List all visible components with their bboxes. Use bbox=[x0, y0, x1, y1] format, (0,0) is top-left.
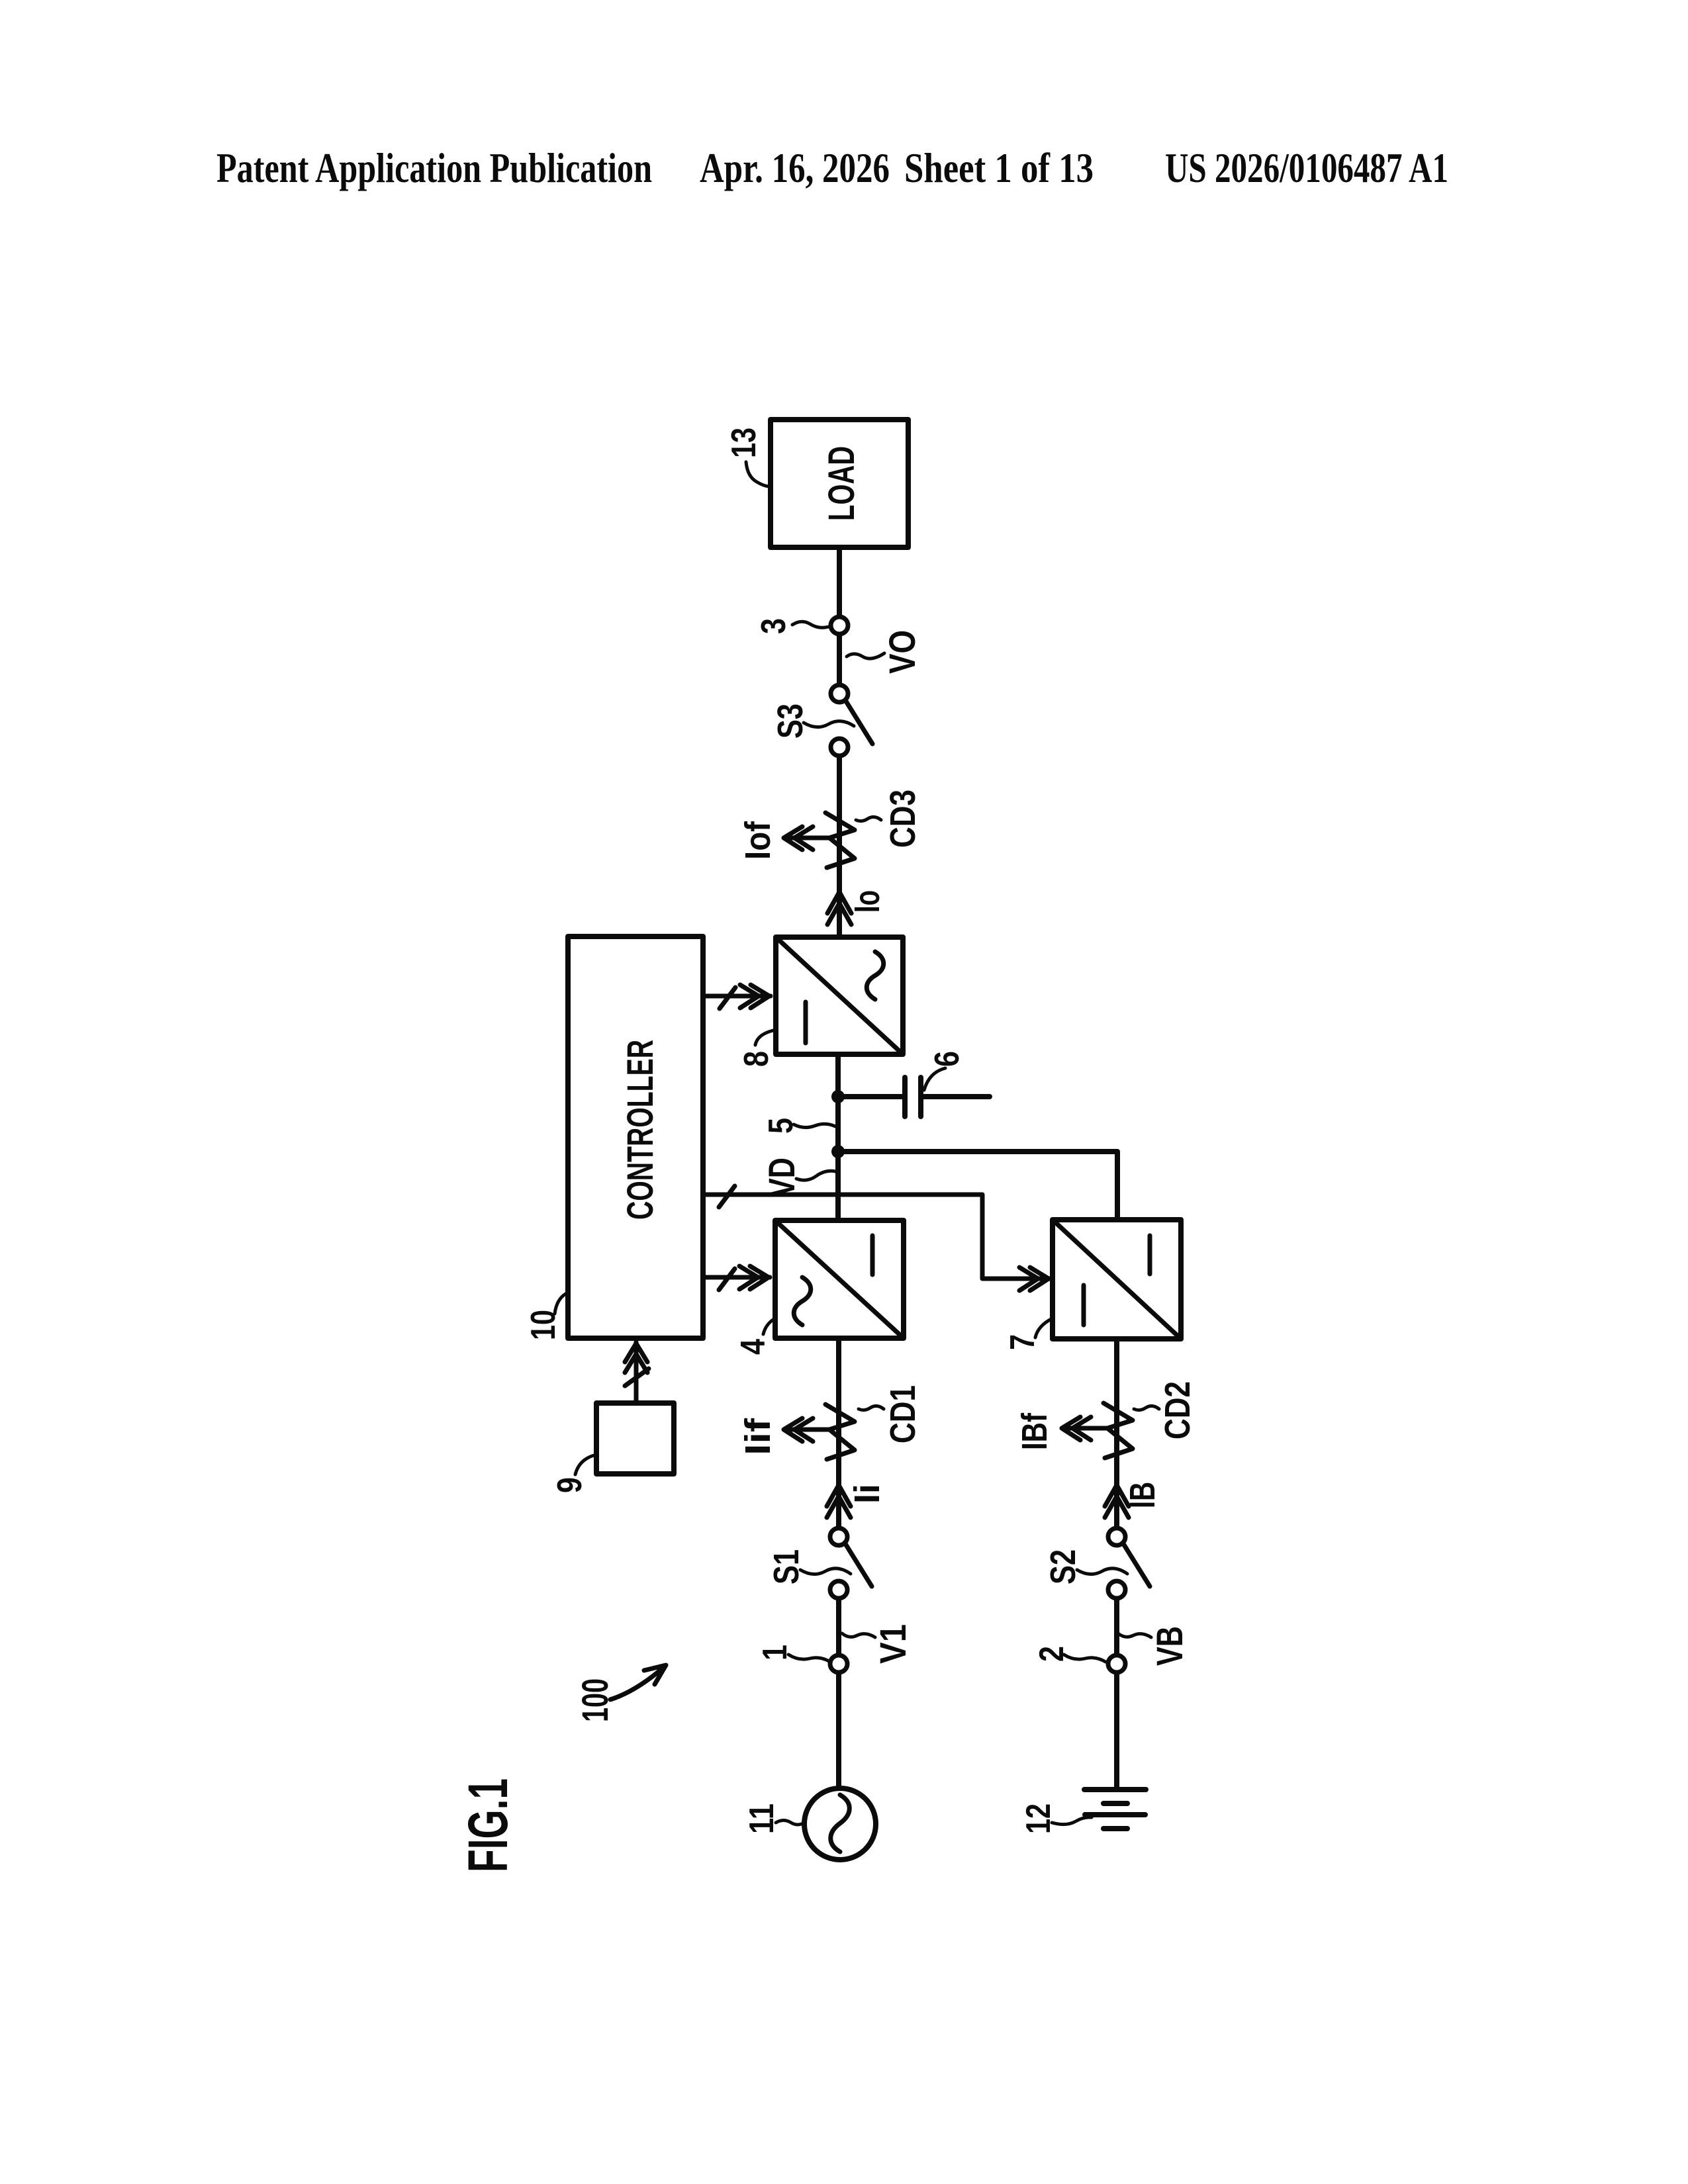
svg-text:CONTROLLER: CONTROLLER bbox=[619, 1040, 661, 1220]
signal line box 9 to controller bbox=[625, 1342, 647, 1403]
svg-text:CD3: CD3 bbox=[883, 790, 923, 848]
svg-text:LOAD: LOAD bbox=[820, 446, 862, 521]
battery 12 plate short bottom bbox=[1103, 1826, 1127, 1831]
slash on bus to converter 4 bbox=[719, 1269, 735, 1290]
svg-text:12: 12 bbox=[1019, 1803, 1058, 1834]
DC bar of converter 4 bbox=[870, 1236, 875, 1275]
control bus controller to converter 8 bbox=[703, 985, 771, 1008]
converter box 7 bbox=[1053, 1220, 1181, 1339]
svg-text:3: 3 bbox=[755, 618, 793, 634]
DC bar top of converter 7 bbox=[1148, 1236, 1152, 1274]
switch S2 lower contact bbox=[1108, 1581, 1125, 1598]
control bus controller to converter 4 bbox=[703, 1266, 770, 1289]
svg-text:CD2: CD2 bbox=[1158, 1381, 1197, 1439]
switch S1 lower contact bbox=[830, 1581, 847, 1598]
svg-text:4: 4 bbox=[734, 1339, 773, 1355]
leader for 9 bbox=[575, 1455, 596, 1475]
leader for 7 bbox=[1035, 1318, 1053, 1338]
leader for 3 bbox=[792, 621, 829, 627]
svg-text:VO: VO bbox=[881, 630, 923, 674]
leader for 12 bbox=[1052, 1817, 1092, 1825]
wire S1 to AC source 11 bbox=[836, 1590, 841, 1788]
diagonal of converter 7 bbox=[1053, 1220, 1181, 1339]
wire S2 to battery 12 bbox=[1114, 1590, 1119, 1790]
wire node VD to converter 7 bbox=[838, 1152, 1117, 1220]
svg-text:S3: S3 bbox=[771, 704, 810, 739]
battery 12 plate short bbox=[1103, 1801, 1127, 1806]
arrow leader 100 bbox=[610, 1665, 666, 1700]
svg-text:11: 11 bbox=[743, 1803, 781, 1834]
wire converter 7 to switch S2 bbox=[1114, 1339, 1119, 1537]
slash on line from box 9 bbox=[625, 1369, 649, 1386]
leader for S3 bbox=[804, 721, 854, 727]
controller box 10 bbox=[568, 936, 703, 1338]
switch S1 blade bbox=[845, 1543, 872, 1586]
wire S3 to converter 8 bbox=[837, 747, 842, 937]
DC bar bottom of converter 7 bbox=[1082, 1285, 1086, 1325]
svg-text:Io: Io bbox=[847, 890, 887, 913]
current sensor CD1 zigzag bbox=[825, 1404, 855, 1459]
battery 12 plate long top bbox=[1084, 1787, 1146, 1792]
battery 12 plate long bbox=[1085, 1812, 1145, 1817]
leader for CD3 bbox=[856, 817, 881, 821]
terminal node 3 bbox=[831, 617, 848, 634]
junction dot at capacitor node bbox=[831, 1090, 845, 1103]
current sensor CD3 zigzag bbox=[825, 813, 855, 868]
leader for 4 bbox=[763, 1318, 775, 1334]
svg-text:VB: VB bbox=[1149, 1626, 1190, 1666]
AC source circle 11 bbox=[804, 1788, 876, 1860]
leader for 5 bbox=[794, 1124, 835, 1127]
svg-text:Iif: Iif bbox=[738, 1418, 778, 1455]
svg-text:8: 8 bbox=[737, 1051, 776, 1067]
svg-text:S2: S2 bbox=[1043, 1549, 1083, 1584]
switch S1 upper contact bbox=[830, 1528, 847, 1545]
slash on sense line bbox=[719, 1186, 735, 1207]
svg-text:100: 100 bbox=[574, 1678, 616, 1722]
wire converter 8 to converter 4 through nodes 5 bbox=[835, 1054, 841, 1220]
arrow Ii on wire bbox=[827, 1485, 851, 1518]
leader for VO bbox=[847, 653, 884, 659]
svg-text:1: 1 bbox=[756, 1645, 794, 1661]
svg-text:2: 2 bbox=[1033, 1646, 1071, 1662]
switch S3 blade bbox=[845, 700, 872, 744]
svg-text:Patent Application Publication: Patent Application Publication bbox=[216, 144, 652, 191]
AC tilde of converter 8 bbox=[867, 952, 884, 999]
arrow IBf bbox=[1062, 1417, 1107, 1440]
wire LOAD to node 3 and to switch S3 bbox=[837, 547, 842, 694]
leader for VB bbox=[1118, 1633, 1151, 1637]
wire capacitor branch bbox=[838, 1094, 903, 1099]
arrow Io on wire bbox=[827, 892, 851, 925]
svg-text:9: 9 bbox=[551, 1477, 589, 1493]
diagonal of converter 4 bbox=[775, 1220, 904, 1338]
leader for VD bbox=[796, 1171, 835, 1180]
switch S2 upper contact bbox=[1108, 1528, 1125, 1545]
wire converter 4 to switch S1 bbox=[836, 1338, 841, 1537]
svg-text:5: 5 bbox=[762, 1118, 800, 1134]
svg-text:Sheet 1 of 13: Sheet 1 of 13 bbox=[904, 144, 1094, 191]
svg-text:IBf: IBf bbox=[1015, 1412, 1055, 1450]
svg-text:10: 10 bbox=[524, 1310, 563, 1340]
junction dot at node 5 VD bbox=[831, 1145, 845, 1158]
terminal node 1 bbox=[830, 1655, 847, 1672]
reference box 9 bbox=[596, 1403, 674, 1474]
slash on bus to converter 8 bbox=[720, 987, 735, 1009]
converter box 8 bbox=[776, 937, 903, 1054]
current sensor CD2 zigzag bbox=[1103, 1403, 1133, 1458]
leader for 11 bbox=[776, 1821, 804, 1825]
svg-text:FIG.1: FIG.1 bbox=[457, 1778, 519, 1872]
svg-text:CD1: CD1 bbox=[883, 1385, 923, 1443]
switch S3 upper contact bbox=[831, 685, 848, 702]
svg-text:S1: S1 bbox=[767, 1549, 806, 1584]
leader for 10 bbox=[555, 1293, 568, 1314]
svg-text:Apr. 16, 2026: Apr. 16, 2026 bbox=[700, 144, 890, 191]
leader for 1 bbox=[788, 1655, 830, 1662]
AC sine inside source 11 bbox=[831, 1795, 850, 1852]
capacitor 6 plate right bbox=[918, 1077, 923, 1116]
leader for CD2 bbox=[1134, 1406, 1159, 1410]
svg-text:6: 6 bbox=[928, 1051, 966, 1067]
svg-text:7: 7 bbox=[1004, 1334, 1042, 1350]
arrow IB on wire bbox=[1105, 1485, 1129, 1518]
LOAD box 13 bbox=[771, 420, 908, 547]
sense line VD controller to converter 7 bbox=[703, 1195, 1050, 1291]
capacitor 6 plate left bbox=[902, 1077, 908, 1116]
leader for CD1 bbox=[859, 1406, 884, 1410]
AC tilde of converter 4 bbox=[794, 1277, 811, 1325]
arrow Iif bbox=[784, 1418, 829, 1441]
converter box 4 bbox=[775, 1220, 904, 1338]
leader for 6 bbox=[924, 1068, 945, 1090]
svg-text:13: 13 bbox=[725, 428, 763, 458]
leader for S1 bbox=[800, 1569, 851, 1574]
terminal node 2 bbox=[1108, 1655, 1125, 1672]
leader for S2 bbox=[1077, 1569, 1127, 1574]
switch S2 blade bbox=[1123, 1543, 1150, 1586]
svg-text:Iof: Iof bbox=[738, 821, 778, 860]
svg-text:IB: IB bbox=[1123, 1482, 1162, 1508]
svg-text:V1: V1 bbox=[872, 1624, 914, 1664]
DC bar of converter 8 bbox=[804, 1002, 808, 1043]
diagonal of converter 8 bbox=[776, 937, 903, 1054]
leader for 2 bbox=[1064, 1655, 1105, 1662]
svg-text:US 2026/0106487 A1: US 2026/0106487 A1 bbox=[1165, 144, 1448, 191]
svg-text:VD: VD bbox=[761, 1158, 802, 1197]
leader for 8 bbox=[755, 1030, 773, 1045]
switch S3 lower contact bbox=[831, 739, 848, 756]
leader for V1 bbox=[842, 1633, 875, 1637]
arrow Iof bbox=[784, 827, 829, 850]
leader for 13 bbox=[746, 462, 769, 486]
svg-text:Ii: Ii bbox=[847, 1484, 887, 1504]
